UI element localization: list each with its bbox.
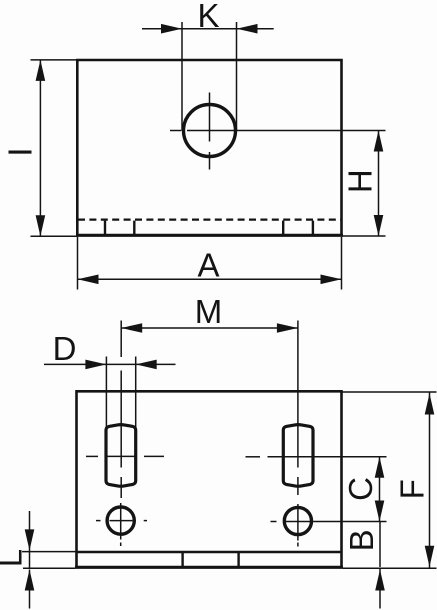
svg-text:D: D (53, 330, 77, 367)
bottom view part outline (75, 391, 343, 567)
svg-text:H: H (342, 169, 379, 193)
dimension H line with arrows (374, 131, 384, 237)
right slot vertical centerline / M extension (297, 321, 299, 496)
left slot (106, 425, 136, 487)
dimension C line with arrows (375, 457, 385, 522)
dimension L line with outside arrows (25, 511, 35, 609)
hole centerline horizontal + H extension (170, 130, 386, 132)
svg-text:A: A (197, 247, 219, 284)
top view hidden dashed line (78, 218, 341, 220)
dimension I extension lines (31, 60, 78, 236)
left slot vertical centerline / M extension (120, 321, 122, 499)
label K (197, 0, 219, 34)
top view slot edge ticks (105, 221, 313, 234)
dimension D line with arrows (44, 360, 176, 370)
left slot horizontal centerline (86, 455, 164, 457)
label M (195, 293, 223, 330)
label C (342, 477, 379, 501)
label A (197, 247, 219, 284)
dimension M line with arrows (121, 323, 298, 333)
dimension A line with arrows (78, 275, 342, 285)
label B (343, 529, 380, 551)
svg-text:F: F (394, 479, 431, 499)
svg-text:I: I (2, 147, 39, 156)
right mounting circle (284, 507, 311, 534)
dimension H bottom extension line (342, 235, 386, 237)
svg-text:B: B (343, 529, 380, 551)
dimension A extension lines (78, 237, 342, 290)
right slot horizontal centerline / C extension (246, 456, 387, 458)
dimension I line with arrows (36, 60, 46, 236)
hole circle (184, 105, 236, 157)
left circle crosshair (96, 503, 147, 546)
right circle crosshair + B extension (271, 504, 387, 547)
bottom view base strip top line (77, 551, 342, 554)
label H (342, 169, 379, 193)
svg-text:K: K (197, 0, 219, 34)
dimension L extension lines (22, 552, 77, 569)
hole centerline vertical (209, 93, 211, 170)
top view part outline (76, 60, 343, 235)
label I (2, 147, 39, 156)
svg-text:M: M (195, 293, 223, 330)
dimension K extension lines (182, 22, 237, 131)
dimension K line with arrows (142, 24, 274, 34)
right slot (283, 425, 313, 487)
svg-text:C: C (342, 477, 379, 501)
dimension B line with outside arrow (375, 522, 385, 609)
label L (0, 549, 29, 567)
svg-text:L: L (0, 549, 29, 567)
dimension F extension lines (342, 392, 437, 568)
dimension F line with arrows (425, 392, 435, 568)
label F (394, 479, 431, 499)
left mounting circle (107, 507, 134, 534)
dimension D extension lines (106, 357, 135, 432)
label D (53, 330, 77, 367)
base strip ticks (183, 553, 239, 566)
